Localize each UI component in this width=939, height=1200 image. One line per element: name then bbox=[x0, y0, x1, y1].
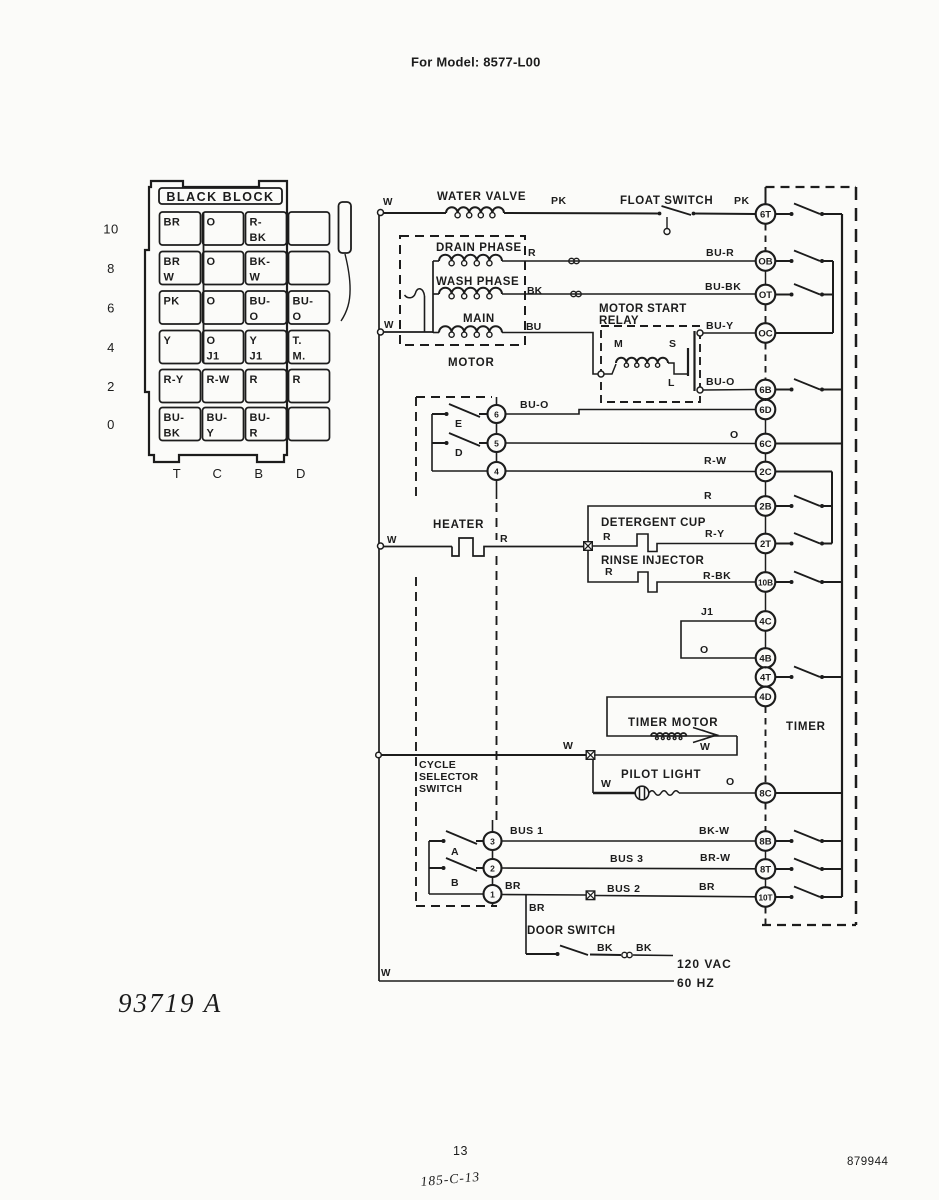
selector common A/B bbox=[428, 841, 430, 894]
timer dashed left edge bbox=[765, 224, 767, 252]
wire R to 2B bbox=[588, 506, 756, 542]
svg-text:BU-: BU- bbox=[293, 296, 314, 308]
svg-text:BR: BR bbox=[164, 256, 181, 268]
timer switch 2T bbox=[775, 543, 790, 545]
svg-text:2: 2 bbox=[107, 379, 115, 394]
svg-text:BK: BK bbox=[597, 942, 613, 954]
svg-text:R: R bbox=[250, 428, 258, 440]
svg-text:DRAIN PHASE: DRAIN PHASE bbox=[436, 242, 522, 254]
svg-text:D: D bbox=[455, 447, 463, 459]
svg-text:SWITCH: SWITCH bbox=[419, 783, 462, 795]
svg-text:R: R bbox=[500, 533, 508, 545]
svg-text:W: W bbox=[164, 272, 175, 284]
switch D bbox=[432, 442, 445, 444]
svg-text:OB: OB bbox=[758, 256, 772, 267]
relay coil M bbox=[604, 364, 616, 374]
motor dashed box bbox=[400, 236, 525, 345]
connector cell B10 bbox=[246, 212, 287, 245]
svg-text:DETERGENT CUP: DETERGENT CUP bbox=[601, 517, 706, 529]
svg-text:2: 2 bbox=[490, 863, 495, 873]
timer terminal 6D bbox=[756, 400, 776, 420]
connector cell T4 bbox=[160, 331, 201, 364]
motor winding common bbox=[432, 261, 434, 333]
svg-text:T: T bbox=[173, 466, 181, 481]
svg-text:93719 A: 93719 A bbox=[118, 988, 222, 1018]
connector cell C6 bbox=[203, 291, 244, 324]
timer terminal OC bbox=[756, 323, 776, 343]
drain phase winding bbox=[433, 260, 439, 262]
svg-text:R-BK: R-BK bbox=[703, 570, 731, 582]
svg-text:BK-W: BK-W bbox=[699, 825, 730, 837]
svg-text:R: R bbox=[605, 566, 613, 578]
svg-text:BK: BK bbox=[250, 232, 267, 244]
connector cell B6 bbox=[246, 291, 287, 324]
timer terminal 6T bbox=[756, 204, 776, 224]
svg-text:4: 4 bbox=[107, 340, 115, 355]
svg-text:RELAY: RELAY bbox=[599, 315, 639, 327]
relay junction bbox=[598, 371, 604, 377]
wire W bottom bbox=[379, 980, 674, 982]
terminal W top bbox=[378, 210, 384, 216]
svg-text:BUS 3: BUS 3 bbox=[610, 853, 643, 865]
svg-text:BLACK BLOCK: BLACK BLOCK bbox=[166, 190, 274, 204]
svg-text:RINSE INJECTOR: RINSE INJECTOR bbox=[601, 555, 704, 567]
svg-text:MOTOR: MOTOR bbox=[448, 357, 495, 369]
wire W to water valve bbox=[383, 212, 446, 214]
svg-text:W: W bbox=[700, 741, 710, 753]
svg-text:CYCLE: CYCLE bbox=[419, 759, 456, 771]
svg-text:WATER VALVE: WATER VALVE bbox=[437, 191, 526, 203]
BLACK BLOCK title box bbox=[159, 188, 282, 204]
timer terminal 10B bbox=[756, 572, 776, 592]
svg-text:Y: Y bbox=[207, 428, 215, 440]
timer terminal 8B bbox=[756, 831, 776, 851]
connector cell B2 bbox=[246, 370, 287, 403]
svg-text:879944: 879944 bbox=[847, 1156, 888, 1168]
svg-text:Y: Y bbox=[164, 335, 172, 347]
svg-text:FLOAT SWITCH: FLOAT SWITCH bbox=[620, 195, 713, 207]
svg-text:6C: 6C bbox=[759, 439, 771, 450]
svg-text:60 HZ: 60 HZ bbox=[677, 976, 715, 990]
timer switch 8B bbox=[775, 840, 790, 842]
svg-text:6B: 6B bbox=[759, 385, 771, 396]
svg-text:M: M bbox=[614, 338, 623, 350]
connector cell D2 bbox=[289, 370, 330, 403]
svg-text:BU-R: BU-R bbox=[706, 247, 734, 259]
svg-text:R-W: R-W bbox=[704, 455, 727, 467]
svg-text:R-: R- bbox=[250, 217, 262, 229]
svg-text:O: O bbox=[700, 644, 708, 656]
svg-text:T.: T. bbox=[293, 335, 302, 347]
svg-text:4D: 4D bbox=[759, 692, 771, 703]
connector cell C4 bbox=[203, 331, 244, 364]
timer switch 10T bbox=[775, 896, 790, 898]
svg-text:W: W bbox=[381, 968, 391, 979]
svg-text:R-W: R-W bbox=[207, 374, 230, 386]
connector cell D4 bbox=[289, 331, 330, 364]
svg-text:PILOT LIGHT: PILOT LIGHT bbox=[621, 769, 701, 781]
svg-text:BU-: BU- bbox=[250, 412, 271, 424]
connector cell T6 bbox=[160, 291, 201, 324]
connector cell D10 bbox=[289, 212, 330, 245]
svg-text:BU-BK: BU-BK bbox=[705, 281, 741, 293]
connector cell D6 bbox=[289, 291, 330, 324]
wire W to motor bbox=[383, 331, 433, 333]
svg-text:O: O bbox=[726, 776, 734, 788]
timer dashed box bbox=[766, 186, 857, 188]
svg-text:O: O bbox=[207, 296, 216, 308]
relay contact bars bbox=[687, 348, 689, 376]
svg-text:185-C-13: 185-C-13 bbox=[420, 1169, 481, 1189]
wire to contact 4 bbox=[432, 470, 488, 472]
connector cell C2 bbox=[203, 370, 244, 403]
timer switch OB bbox=[775, 260, 790, 262]
connector cell T10 bbox=[160, 212, 201, 245]
svg-text:R: R bbox=[250, 374, 258, 386]
svg-text:B: B bbox=[451, 877, 459, 889]
door switch bbox=[525, 895, 527, 954]
timer switch 8T bbox=[775, 868, 790, 870]
svg-text:TIMER: TIMER bbox=[786, 721, 826, 733]
svg-text:8C: 8C bbox=[759, 788, 771, 799]
timer terminal 2B bbox=[756, 496, 776, 516]
relay terminal bottom bbox=[697, 387, 703, 393]
timer bus vertical bbox=[841, 214, 843, 897]
svg-text:R: R bbox=[528, 247, 536, 259]
svg-text:O: O bbox=[207, 217, 216, 229]
switch A bbox=[429, 840, 442, 842]
connector cell C0 bbox=[203, 408, 244, 441]
node W left rail bbox=[378, 212, 380, 981]
svg-text:BUS 2: BUS 2 bbox=[607, 883, 640, 895]
svg-text:L: L bbox=[668, 377, 675, 389]
svg-text:10: 10 bbox=[103, 222, 118, 237]
wire contact4 to 2C bbox=[506, 470, 756, 473]
timer terminal 4B bbox=[756, 648, 776, 668]
svg-text:WASH PHASE: WASH PHASE bbox=[436, 276, 519, 288]
svg-text:J1: J1 bbox=[250, 351, 263, 363]
selector common E/D bbox=[431, 414, 433, 471]
svg-text:1: 1 bbox=[490, 889, 495, 899]
timer switch 6B bbox=[775, 389, 790, 391]
terminal W heater bbox=[378, 543, 384, 549]
timer switch 2B bbox=[775, 505, 790, 507]
svg-text:TIMER MOTOR: TIMER MOTOR bbox=[628, 717, 718, 729]
svg-text:10B: 10B bbox=[758, 578, 773, 587]
motor protector bbox=[424, 296, 426, 332]
svg-text:BU-: BU- bbox=[207, 412, 228, 424]
svg-text:BU-O: BU-O bbox=[520, 399, 549, 411]
svg-text:4T: 4T bbox=[760, 672, 771, 683]
wire water valve to float switch bbox=[504, 212, 659, 215]
svg-text:A: A bbox=[451, 846, 459, 858]
connector cell B8 bbox=[246, 252, 287, 285]
svg-text:8: 8 bbox=[107, 261, 115, 276]
connector tab bbox=[339, 202, 352, 253]
svg-text:W: W bbox=[601, 778, 611, 790]
svg-text:O: O bbox=[250, 311, 259, 323]
selector contact 3 bbox=[492, 820, 494, 832]
connector cell B0 bbox=[246, 408, 287, 441]
svg-text:R-Y: R-Y bbox=[164, 374, 184, 386]
svg-text:R-Y: R-Y bbox=[705, 528, 725, 540]
svg-text:BR: BR bbox=[164, 217, 181, 229]
wire to contact 1 bbox=[429, 893, 484, 895]
connector on R wire bbox=[569, 258, 574, 263]
connector cell B4 bbox=[246, 331, 287, 364]
timer terminal 2T bbox=[756, 534, 776, 554]
svg-text:PK: PK bbox=[734, 195, 750, 207]
svg-text:BR: BR bbox=[699, 881, 715, 893]
svg-text:B: B bbox=[254, 466, 263, 481]
selector contact 1 bbox=[492, 877, 494, 885]
connector on door switch wire bbox=[622, 952, 627, 957]
OB/OT bracket bbox=[832, 261, 834, 333]
svg-text:C: C bbox=[213, 466, 223, 481]
connector cell T2 bbox=[160, 370, 201, 403]
selector contact 2 bbox=[492, 850, 494, 859]
svg-text:O: O bbox=[207, 335, 216, 347]
wire BU-O relay to 6B bbox=[703, 389, 756, 392]
switch E bbox=[432, 413, 445, 415]
svg-text:W: W bbox=[383, 197, 393, 208]
svg-text:PK: PK bbox=[164, 296, 180, 308]
svg-text:10T: 10T bbox=[758, 893, 772, 902]
timer switch 4T bbox=[775, 676, 790, 678]
svg-text:W: W bbox=[250, 272, 261, 284]
svg-text:S: S bbox=[669, 338, 676, 350]
svg-text:W: W bbox=[387, 535, 397, 546]
svg-text:W: W bbox=[563, 740, 573, 752]
svg-text:8B: 8B bbox=[759, 836, 771, 847]
switch B bbox=[429, 867, 442, 869]
svg-text:4C: 4C bbox=[759, 616, 771, 627]
svg-text:3: 3 bbox=[490, 836, 495, 846]
timer terminal 8C bbox=[756, 783, 776, 803]
terminal W motor bbox=[378, 329, 384, 335]
timer terminal 4D bbox=[756, 687, 776, 707]
timer motor arrow bbox=[693, 728, 717, 743]
svg-text:120 VAC: 120 VAC bbox=[677, 957, 732, 971]
svg-text:2T: 2T bbox=[760, 539, 771, 550]
connector cell C8 bbox=[203, 252, 244, 285]
svg-text:MAIN: MAIN bbox=[463, 313, 495, 325]
svg-text:BUS 1: BUS 1 bbox=[510, 825, 543, 837]
timer column stems bbox=[765, 271, 767, 286]
terminal W timer bus bbox=[376, 752, 382, 758]
timer terminal 6C bbox=[756, 434, 776, 454]
svg-text:4B: 4B bbox=[759, 653, 771, 664]
wire OC bbox=[775, 332, 833, 334]
svg-text:MOTOR START: MOTOR START bbox=[599, 303, 687, 315]
svg-text:O: O bbox=[207, 256, 216, 268]
wash phase winding bbox=[433, 293, 439, 295]
svg-text:R: R bbox=[293, 374, 301, 386]
svg-text:O: O bbox=[730, 429, 738, 441]
svg-text:DOOR SWITCH: DOOR SWITCH bbox=[527, 925, 616, 937]
svg-text:BR: BR bbox=[529, 902, 545, 914]
svg-text:0: 0 bbox=[107, 417, 115, 432]
wire float switch to 6T bbox=[694, 213, 756, 216]
svg-text:BR: BR bbox=[505, 880, 521, 892]
connector on BK wire bbox=[571, 291, 576, 296]
svg-text:6T: 6T bbox=[760, 209, 771, 220]
svg-text:BU-O: BU-O bbox=[706, 376, 735, 388]
selector contact 6 bbox=[496, 397, 498, 405]
wire BU-Y relay to OC bbox=[703, 332, 756, 334]
junction heater/detergent bbox=[584, 542, 593, 551]
timer switch OT bbox=[775, 294, 790, 296]
wire 6C to bus bbox=[775, 443, 842, 445]
connector cell C10 bbox=[203, 212, 244, 245]
connector cell T0 bbox=[160, 408, 201, 441]
timer terminal 4T bbox=[756, 667, 776, 687]
cycle selector dashed box bbox=[415, 397, 417, 500]
main winding bbox=[433, 332, 439, 334]
svg-text:SELECTOR: SELECTOR bbox=[419, 771, 478, 783]
svg-text:W: W bbox=[384, 320, 394, 331]
svg-text:4: 4 bbox=[494, 466, 499, 476]
svg-text:BK: BK bbox=[636, 942, 652, 954]
connector cell D8 bbox=[289, 252, 330, 285]
wire contact5 to 6C bbox=[506, 442, 756, 445]
svg-text:R: R bbox=[603, 531, 611, 543]
svg-text:BR-W: BR-W bbox=[700, 852, 731, 864]
svg-text:BU-Y: BU-Y bbox=[706, 320, 734, 332]
svg-text:BU-: BU- bbox=[250, 296, 271, 308]
svg-text:BU: BU bbox=[526, 321, 541, 333]
relay terminal top bbox=[697, 330, 703, 336]
svg-text:6: 6 bbox=[107, 301, 115, 316]
svg-text:M.: M. bbox=[293, 351, 306, 363]
timer switch 10B bbox=[775, 581, 790, 583]
selector contact 5 bbox=[496, 423, 498, 434]
2C bracket bbox=[831, 472, 833, 544]
timer terminal OT bbox=[756, 285, 776, 305]
svg-text:O: O bbox=[293, 311, 302, 323]
svg-text:R: R bbox=[704, 490, 712, 502]
svg-text:HEATER: HEATER bbox=[433, 519, 484, 531]
svg-text:6D: 6D bbox=[759, 405, 771, 416]
timer switch 6T bbox=[775, 213, 790, 215]
svg-text:13: 13 bbox=[453, 1144, 468, 1158]
svg-text:D: D bbox=[296, 466, 306, 481]
svg-text:OT: OT bbox=[759, 290, 772, 301]
svg-text:BK: BK bbox=[164, 428, 181, 440]
svg-text:8T: 8T bbox=[760, 864, 771, 875]
connector housing BLACK BLOCK outline bbox=[145, 181, 287, 462]
svg-text:Y: Y bbox=[250, 335, 258, 347]
svg-text:2B: 2B bbox=[759, 501, 771, 512]
timer terminal OB bbox=[756, 251, 776, 271]
connector cell T8 bbox=[160, 252, 201, 285]
wire through connector C column bbox=[203, 212, 205, 363]
svg-text:2C: 2C bbox=[759, 467, 771, 478]
svg-text:J1: J1 bbox=[701, 606, 713, 618]
water valve coil bbox=[446, 207, 504, 213]
junction BUS 2 bbox=[586, 891, 595, 900]
svg-text:BK-: BK- bbox=[250, 256, 271, 268]
junction W bus bbox=[586, 751, 595, 760]
timer terminal 6B bbox=[756, 380, 776, 400]
svg-text:E: E bbox=[455, 418, 462, 430]
timer terminal 2C bbox=[756, 462, 776, 482]
timer terminal 4C bbox=[756, 611, 776, 631]
svg-text:For Model: 8577-L00: For Model: 8577-L00 bbox=[411, 55, 541, 70]
wire 8C to bus bbox=[775, 792, 842, 794]
motor start relay dashed box bbox=[601, 326, 700, 402]
connector cell D0 bbox=[289, 408, 330, 441]
timer terminal 10T bbox=[756, 887, 776, 907]
svg-text:J1: J1 bbox=[207, 351, 220, 363]
svg-text:5: 5 bbox=[494, 438, 499, 448]
timer terminal 8T bbox=[756, 859, 776, 879]
wire from connector tab bbox=[341, 254, 350, 321]
svg-text:PK: PK bbox=[551, 195, 567, 207]
wire 2C to bracket bbox=[775, 471, 832, 473]
svg-text:BK: BK bbox=[527, 285, 543, 297]
svg-text:OC: OC bbox=[758, 328, 772, 339]
svg-text:6: 6 bbox=[494, 409, 499, 419]
svg-text:BU-: BU- bbox=[164, 412, 185, 424]
selector contact 4 bbox=[496, 452, 498, 462]
